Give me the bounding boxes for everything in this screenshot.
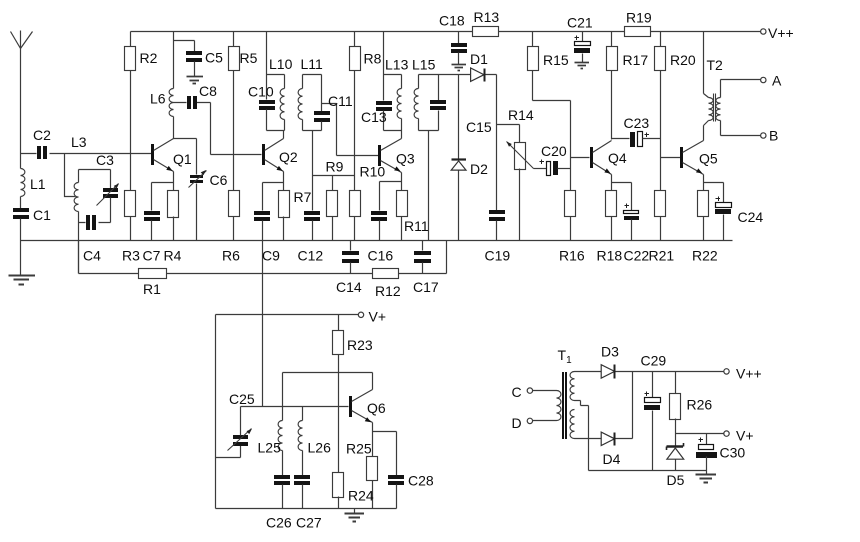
svg-text:Q1: Q1 xyxy=(173,151,192,167)
svg-text:R7: R7 xyxy=(294,189,312,205)
svg-text:R13: R13 xyxy=(474,9,500,25)
svg-text:C26: C26 xyxy=(266,515,292,531)
svg-text:R22: R22 xyxy=(692,248,718,264)
svg-text:L26: L26 xyxy=(308,440,332,456)
svg-text:Q5: Q5 xyxy=(699,151,718,167)
svg-text:C1: C1 xyxy=(33,207,51,223)
svg-text:C25: C25 xyxy=(229,391,255,407)
svg-text:C5: C5 xyxy=(205,50,223,66)
svg-text:C11: C11 xyxy=(328,93,353,109)
svg-text:C13: C13 xyxy=(361,109,387,125)
svg-text:A: A xyxy=(772,73,782,89)
svg-text:R14: R14 xyxy=(508,107,534,123)
svg-text:R16: R16 xyxy=(559,248,585,264)
svg-text:C16: C16 xyxy=(368,248,394,264)
svg-text:C4: C4 xyxy=(83,248,101,264)
svg-text:T2: T2 xyxy=(707,57,724,73)
svg-text:C8: C8 xyxy=(199,83,217,99)
svg-text:R9: R9 xyxy=(326,159,344,175)
svg-text:R23: R23 xyxy=(347,337,373,353)
svg-text:L6: L6 xyxy=(150,91,166,107)
svg-text:R26: R26 xyxy=(687,397,713,413)
svg-text:C12: C12 xyxy=(298,248,324,264)
svg-text:R10: R10 xyxy=(360,164,386,180)
svg-text:L1: L1 xyxy=(30,176,46,192)
svg-text:R8: R8 xyxy=(364,51,382,67)
svg-text:C30: C30 xyxy=(720,445,746,461)
svg-text:R3: R3 xyxy=(122,248,140,264)
svg-text:Q2: Q2 xyxy=(279,149,298,165)
svg-text:C18: C18 xyxy=(439,13,465,29)
svg-text:R21: R21 xyxy=(649,248,675,264)
svg-text:R1: R1 xyxy=(143,281,161,297)
svg-text:L13: L13 xyxy=(385,57,409,73)
svg-text:C3: C3 xyxy=(96,152,114,168)
svg-text:C21: C21 xyxy=(567,15,593,31)
svg-text:V++: V++ xyxy=(768,25,794,41)
svg-text:R11: R11 xyxy=(404,218,429,234)
svg-text:C7: C7 xyxy=(143,248,161,264)
svg-text:R20: R20 xyxy=(670,52,696,68)
svg-text:C: C xyxy=(512,384,522,400)
svg-text:D: D xyxy=(512,415,522,431)
svg-text:R12: R12 xyxy=(375,283,401,299)
svg-text:C28: C28 xyxy=(408,473,434,489)
svg-text:V++: V++ xyxy=(736,366,762,382)
svg-text:C2: C2 xyxy=(33,127,51,143)
svg-text:L25: L25 xyxy=(258,440,282,456)
svg-text:V+: V+ xyxy=(736,428,754,444)
svg-text:Q6: Q6 xyxy=(367,400,386,416)
svg-text:R17: R17 xyxy=(623,52,649,68)
svg-text:V+: V+ xyxy=(369,309,387,325)
svg-text:R19: R19 xyxy=(626,10,652,26)
svg-text:D3: D3 xyxy=(601,344,619,360)
svg-text:R4: R4 xyxy=(164,248,182,264)
svg-text:R6: R6 xyxy=(222,248,240,264)
svg-text:C17: C17 xyxy=(413,279,439,295)
svg-text:R5: R5 xyxy=(240,50,258,66)
svg-text:C15: C15 xyxy=(466,119,492,135)
svg-text:D2: D2 xyxy=(470,161,488,177)
svg-text:C22: C22 xyxy=(624,248,650,264)
svg-text:C9: C9 xyxy=(262,248,280,264)
svg-text:R2: R2 xyxy=(140,50,158,66)
svg-text:R25: R25 xyxy=(346,441,372,457)
svg-text:Q4: Q4 xyxy=(608,150,627,166)
svg-text:C24: C24 xyxy=(738,209,764,225)
svg-text:L15: L15 xyxy=(412,57,436,73)
svg-text:R24: R24 xyxy=(348,488,374,504)
svg-text:Q3: Q3 xyxy=(396,151,415,167)
svg-text:C19: C19 xyxy=(485,248,511,264)
svg-text:L11: L11 xyxy=(301,56,324,72)
svg-text:C10: C10 xyxy=(248,84,274,100)
svg-text:R15: R15 xyxy=(543,52,569,68)
svg-text:C20: C20 xyxy=(541,143,567,159)
svg-text:L10: L10 xyxy=(269,56,293,72)
svg-text:L3: L3 xyxy=(71,134,87,150)
svg-text:C29: C29 xyxy=(641,353,667,369)
svg-text:R18: R18 xyxy=(597,248,623,264)
svg-text:C27: C27 xyxy=(296,515,322,531)
svg-text:D1: D1 xyxy=(470,51,488,67)
svg-text:C14: C14 xyxy=(336,279,362,295)
svg-text:D5: D5 xyxy=(667,472,685,488)
svg-text:C23: C23 xyxy=(624,115,650,131)
svg-text:D4: D4 xyxy=(603,451,621,467)
svg-text:C6: C6 xyxy=(210,172,228,188)
svg-text:B: B xyxy=(769,128,778,144)
